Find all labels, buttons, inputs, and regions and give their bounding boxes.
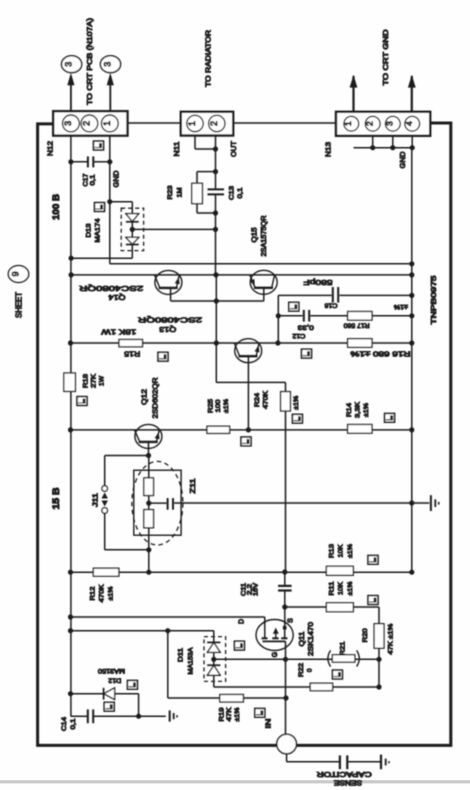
svg-text:3: 3 [63,121,73,126]
svg-text:TO CRT GND: TO CRT GND [381,30,390,86]
svg-text:MA3150: MA3150 [98,667,125,674]
svg-text:R20: R20 [362,628,369,642]
svg-text:4: 4 [404,121,414,126]
svg-text:2SA1575QR: 2SA1575QR [261,216,268,257]
svg-text:±1%: ±1% [223,399,230,413]
svg-text:15 B: 15 B [51,487,61,510]
svg-text:3: 3 [385,121,395,126]
svg-text:2,2: 2,2 [247,583,253,595]
svg-text:0,1: 0,1 [237,187,244,198]
svg-text:S: S [287,618,294,623]
svg-text:C17: C17 [82,173,89,186]
svg-text:47K: 47K [226,707,233,722]
svg-text:±1%: ±1% [363,403,370,417]
svg-text:SHEET: SHEET [15,292,24,318]
svg-text:C14: C14 [61,717,68,731]
svg-text:2SD602QR: 2SD602QR [150,377,159,419]
svg-text:GND: GND [398,151,407,169]
svg-text:D13: D13 [86,223,93,237]
svg-text:2: 2 [365,121,375,126]
svg-text:±1%: ±1% [234,707,241,721]
svg-text:47K ±1%: 47K ±1% [388,623,395,654]
svg-text:CAPACITOR: CAPACITOR [317,770,372,777]
svg-text:G: G [272,652,279,657]
svg-text:±1%: ±1% [347,544,354,558]
svg-text:27K: 27K [91,373,98,388]
svg-text:±1%: ±1% [347,581,354,595]
svg-text:R24: R24 [254,393,261,407]
svg-text:TNPB0975: TNPB0975 [431,275,438,324]
svg-text:10K: 10K [338,581,345,595]
svg-text:R18: R18 [83,374,90,388]
svg-text:R22: R22 [298,663,305,677]
svg-text:1: 1 [187,121,197,126]
svg-text:2: 2 [209,121,219,126]
svg-text:Q15: Q15 [251,227,258,242]
svg-text:R11: R11 [329,581,336,595]
svg-text:J11: J11 [92,493,99,507]
svg-text:N12: N12 [46,141,55,156]
svg-text:C12: C12 [292,332,305,339]
svg-text:R23: R23 [167,185,174,199]
svg-text:OUT: OUT [229,141,238,157]
svg-text:100 B: 100 B [51,193,61,220]
svg-text:1: 1 [102,121,112,126]
svg-text:N13: N13 [324,142,333,157]
svg-text:2SK1470: 2SK1470 [308,622,315,656]
svg-text:Q14: Q14 [109,293,126,302]
svg-text:100: 100 [215,399,222,412]
svg-text:3: 3 [103,62,113,67]
svg-text:0,1: 0,1 [90,174,97,185]
svg-text:Q13: Q13 [159,325,176,334]
svg-text:2: 2 [82,121,92,126]
svg-text:470K: 470K [99,584,106,603]
svg-text:R13: R13 [329,544,336,558]
svg-text:C13: C13 [229,186,236,200]
svg-text:C11: C11 [241,582,247,596]
svg-text:MA174: MA174 [95,218,102,242]
svg-text:D11: D11 [178,648,185,662]
svg-text:D12: D12 [108,677,121,684]
svg-text:Q12: Q12 [139,389,148,405]
svg-text:1M: 1M [177,188,184,198]
svg-text:10K: 10K [338,544,345,558]
svg-text:R25: R25 [208,399,215,413]
svg-text:R12: R12 [90,586,97,600]
svg-text:1: 1 [343,121,353,126]
svg-text:GND: GND [112,170,121,188]
svg-text:R21: R21 [340,641,347,655]
svg-text:±1%: ±1% [293,395,300,409]
svg-text:0: 0 [307,668,314,672]
svg-text:R15: R15 [124,349,140,358]
svg-text:0,33: 0,33 [297,323,313,330]
svg-text:0,1: 0,1 [70,718,77,729]
svg-text:IN: IN [266,719,273,729]
svg-text:Q11: Q11 [299,631,306,646]
svg-text:MA153A: MA153A [188,647,195,675]
svg-text:580pF: 580pF [303,278,333,287]
svg-text:N11: N11 [172,142,181,157]
svg-text:470K: 470K [263,390,270,409]
svg-text:C16: C16 [324,302,337,309]
svg-text:3: 3 [64,62,74,67]
svg-text:2SC4080QR: 2SC4080QR [137,316,202,325]
svg-text:SENSE: SENSE [334,779,362,786]
svg-text:TO RADIATOR: TO RADIATOR [203,30,212,87]
svg-text:TO CRT PCB (N107A): TO CRT PCB (N107A) [85,18,94,105]
svg-text:2SC4080QR: 2SC4080QR [78,284,143,293]
svg-text:18K 1W: 18K 1W [100,328,136,337]
svg-text:±1%: ±1% [394,303,408,310]
svg-text:3,3K: 3,3K [355,401,362,418]
svg-text:Z11: Z11 [190,478,197,493]
svg-text:R14: R14 [346,403,353,417]
svg-text:D: D [238,619,245,624]
svg-text:R19: R19 [219,707,226,721]
svg-text:9: 9 [11,271,21,276]
svg-text:1W: 1W [99,375,106,386]
svg-text:R17 560: R17 560 [343,322,369,329]
svg-text:±1%: ±1% [108,586,115,600]
svg-text:16V: 16V [254,583,260,596]
svg-text:R16 680 ±1%: R16 680 ±1% [351,350,411,357]
